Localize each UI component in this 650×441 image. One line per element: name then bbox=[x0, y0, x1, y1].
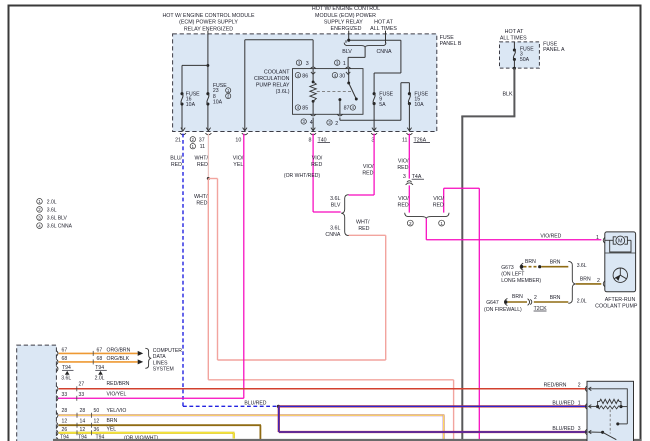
svg-text:HOT AT: HOT AT bbox=[374, 19, 393, 25]
pump fan symbol bbox=[613, 268, 627, 282]
svg-text:YEL/VIO: YEL/VIO bbox=[107, 408, 127, 414]
header: hot at all times (right) bbox=[500, 29, 527, 41]
ground G673 bbox=[501, 263, 541, 284]
relay mechanical dashed link bbox=[317, 91, 352, 93]
svg-text:ORG/BRN: ORG/BRN bbox=[107, 348, 131, 354]
svg-text:2.0L: 2.0L bbox=[95, 376, 105, 382]
svg-text:CNNA: CNNA bbox=[376, 49, 391, 55]
relay U-box bbox=[293, 69, 364, 115]
svg-text:CNNA: CNNA bbox=[325, 232, 340, 238]
pin 3 label bbox=[371, 137, 374, 143]
mechanical dashed link (switch) bbox=[609, 410, 611, 434]
svg-text:CIRCULATION: CIRCULATION bbox=[254, 76, 290, 82]
svg-text:33: 33 bbox=[79, 392, 85, 398]
svg-text:BRN: BRN bbox=[580, 277, 591, 283]
relay pin 1 connector arc + label bbox=[335, 60, 351, 83]
svg-text:VIO/: VIO/ bbox=[398, 196, 409, 202]
svg-text:BLU/RED: BLU/RED bbox=[552, 400, 574, 406]
ground G647 bbox=[484, 298, 522, 312]
svg-text:G673: G673 bbox=[501, 265, 514, 271]
wire BLU/RED solid to pin 1 bbox=[279, 400, 587, 406]
connector T94 labels (data lines) bbox=[61, 365, 107, 381]
feed tick into panel B at x=385.5 bbox=[385, 31, 387, 44]
wire VIO/RED from T4A to option brace (2) bbox=[398, 185, 410, 212]
thermo switch blade bbox=[589, 422, 627, 439]
svg-text:3.6L: 3.6L bbox=[330, 196, 340, 202]
pin 2 cup + arrow bbox=[585, 386, 591, 392]
legend engine variants bbox=[37, 199, 73, 230]
svg-text:VIO/: VIO/ bbox=[433, 196, 444, 202]
svg-text:LINES: LINES bbox=[153, 360, 168, 366]
svg-text:WHT/: WHT/ bbox=[194, 194, 208, 200]
svg-text:2.0L: 2.0L bbox=[47, 199, 57, 205]
computer data lines brace bbox=[145, 348, 182, 373]
pin 3 cup + arrow bbox=[585, 429, 591, 435]
svg-text:26: 26 bbox=[62, 427, 68, 433]
wire WHT/RED branch B (to CNNA brace arm) bbox=[208, 179, 385, 361]
svg-text:BRN: BRN bbox=[550, 295, 561, 301]
ground variant brace bbox=[568, 261, 586, 304]
pump pin 2 cup bbox=[597, 278, 605, 287]
wire BLK from fuse panel A bbox=[461, 68, 515, 441]
wire VIO/RED merged output to pump pin 1 bbox=[426, 219, 601, 240]
svg-text:67: 67 bbox=[62, 348, 68, 354]
svg-text:2: 2 bbox=[335, 121, 338, 127]
header: hot w/ ECM power supply relay energized (center) bbox=[312, 6, 380, 32]
svg-text:RED: RED bbox=[196, 201, 207, 207]
svg-text:10A: 10A bbox=[213, 100, 223, 106]
svg-text:VIO/: VIO/ bbox=[363, 164, 374, 170]
wire VIO/YEL (pin 33) labels bbox=[62, 392, 127, 398]
svg-text:ALL TIMES: ALL TIMES bbox=[500, 35, 527, 41]
svg-text:3.6L: 3.6L bbox=[61, 376, 71, 382]
svg-text:50A: 50A bbox=[520, 57, 530, 63]
pin 1 cup + arrow bbox=[585, 404, 591, 410]
wire BLU/RED dashed from pin 21 bbox=[170, 134, 277, 407]
svg-text:30: 30 bbox=[339, 73, 345, 79]
svg-text:VIO/: VIO/ bbox=[312, 156, 323, 162]
svg-text:12: 12 bbox=[94, 418, 100, 424]
svg-text:33: 33 bbox=[62, 392, 68, 398]
svg-text:PANEL A: PANEL A bbox=[543, 47, 565, 53]
in-line connector T2CK pin 2 bbox=[528, 295, 548, 312]
label BLU/RED near junction bbox=[244, 400, 266, 406]
svg-text:RED/BRN: RED/BRN bbox=[544, 382, 567, 388]
svg-text:2.0L: 2.0L bbox=[577, 299, 587, 305]
junction dot WHT/RED split bbox=[207, 177, 210, 180]
svg-text:28: 28 bbox=[62, 408, 68, 414]
wire VIO/RED from pin 11 T26A down to T4A bbox=[397, 134, 409, 179]
relay switch 30/87 bbox=[332, 73, 358, 115]
svg-text:BLU/RED: BLU/RED bbox=[552, 426, 574, 432]
wire VIO/RED option (1) from right bbox=[433, 188, 480, 441]
svg-text:3: 3 bbox=[403, 174, 406, 180]
svg-text:21: 21 bbox=[175, 137, 181, 143]
option merge brace above motor feed bbox=[405, 213, 449, 226]
fuse 9 5A bbox=[373, 91, 394, 130]
wire BRN merged to pump pin 2 bbox=[576, 277, 602, 284]
svg-text:LONG MEMBER): LONG MEMBER) bbox=[501, 278, 541, 284]
wire BRN from T2CK to brace bbox=[534, 295, 569, 302]
wire WHT/RED branch A (down-right-down) bbox=[194, 179, 454, 441]
wire ORG/BLK (data line 68) bbox=[59, 356, 144, 364]
svg-text:PANEL B: PANEL B bbox=[440, 41, 462, 47]
wire YEL/VIO (pin 28) bbox=[59, 408, 445, 441]
pin 11 T26A label bbox=[402, 137, 430, 143]
wire BRN from G647 (2.0L) bbox=[508, 294, 527, 302]
junction dot BLU/RED split bbox=[277, 405, 280, 408]
svg-text:RED: RED bbox=[398, 202, 409, 208]
wire: feed down to fuse 9 bbox=[374, 40, 401, 93]
svg-text:RED/BRN: RED/BRN bbox=[107, 381, 130, 387]
svg-text:VIO/: VIO/ bbox=[398, 159, 409, 165]
svg-text:BLU/: BLU/ bbox=[170, 156, 182, 162]
svg-text:50: 50 bbox=[94, 408, 100, 414]
wire BRN (pin 12) bbox=[59, 418, 261, 441]
svg-text:87: 87 bbox=[344, 106, 350, 112]
pin 21 label bbox=[175, 137, 181, 143]
fuse 3 50A bbox=[513, 42, 534, 68]
svg-text:12: 12 bbox=[62, 418, 68, 424]
svg-text:3.6L BLV: 3.6L BLV bbox=[47, 216, 68, 222]
relay pin 3 connector arc + label bbox=[296, 60, 316, 82]
fuse panel A label bbox=[543, 41, 565, 53]
resistor element (dual) bbox=[589, 399, 623, 409]
pump motor symbol M bbox=[605, 236, 631, 252]
after-run coolant pump label bbox=[595, 297, 638, 310]
svg-text:ORG/BLK: ORG/BLK bbox=[107, 356, 130, 362]
svg-text:RED: RED bbox=[171, 162, 182, 168]
wire RED/BRN (pin 27) bbox=[59, 381, 587, 389]
svg-text:2: 2 bbox=[534, 295, 537, 301]
svg-text:1: 1 bbox=[596, 235, 599, 241]
fuse 15 10A bbox=[408, 91, 429, 130]
header: hot w/ ECM power supply relay energized (left) bbox=[162, 13, 255, 32]
svg-text:28: 28 bbox=[80, 408, 86, 414]
svg-text:4: 4 bbox=[310, 120, 313, 126]
thermo switch / resistor box (bottom right) bbox=[587, 381, 634, 441]
internal wire pin2 to resistor right bbox=[589, 389, 627, 424]
svg-text:HOT W/ ENGINE CONTROL: HOT W/ ENGINE CONTROL bbox=[312, 6, 380, 12]
wire BLU/RED solid to pin 3 bbox=[279, 406, 587, 432]
svg-text:12: 12 bbox=[80, 427, 86, 433]
svg-text:RED: RED bbox=[311, 162, 322, 168]
svg-text:HOT AT: HOT AT bbox=[505, 29, 524, 35]
svg-text:VIO/: VIO/ bbox=[233, 156, 244, 162]
svg-text:37: 37 bbox=[199, 137, 205, 143]
svg-text:BRN: BRN bbox=[512, 294, 523, 300]
pump pin 1 cup bbox=[596, 235, 605, 243]
svg-text:3: 3 bbox=[306, 61, 309, 67]
svg-text:86: 86 bbox=[302, 73, 308, 79]
relay pin 2 exit arc + label + wire to fuse 15 bbox=[327, 83, 410, 127]
svg-text:BRN: BRN bbox=[107, 418, 118, 424]
relay pin 4 exit arc + label + wire to T40 bbox=[301, 114, 316, 130]
svg-text:MODULE (ECM) POWER: MODULE (ECM) POWER bbox=[315, 13, 376, 19]
header: hot at all times (center) bbox=[370, 19, 397, 32]
label RED/BRN near pin 2 bbox=[544, 382, 581, 388]
wire: BLV arm from junction dot bbox=[345, 40, 347, 43]
fuse panel B box bbox=[173, 34, 437, 132]
svg-text:HOT W/ ENGINE CONTROL MODULE: HOT W/ ENGINE CONTROL MODULE bbox=[162, 13, 255, 19]
svg-text:BRN: BRN bbox=[525, 259, 536, 265]
svg-text:10A: 10A bbox=[414, 102, 424, 108]
svg-text:SYSTEM: SYSTEM bbox=[153, 367, 174, 373]
svg-text:3.6L CNNA: 3.6L CNNA bbox=[47, 224, 73, 230]
svg-text:YEL: YEL bbox=[107, 427, 117, 433]
fuse panel B label bbox=[440, 35, 462, 47]
svg-text:3.6L: 3.6L bbox=[47, 207, 57, 213]
wire: pin10 vertical and top horizontal to relay pin3 bbox=[245, 40, 313, 131]
svg-text:2: 2 bbox=[578, 382, 581, 388]
svg-text:11: 11 bbox=[200, 144, 206, 150]
svg-text:WHT/: WHT/ bbox=[194, 156, 208, 162]
svg-text:14: 14 bbox=[80, 418, 86, 424]
wire: merge output to relay pin 1 bbox=[348, 47, 365, 67]
svg-text:RED: RED bbox=[358, 226, 369, 232]
svg-text:85: 85 bbox=[302, 106, 308, 112]
ECM pin cups right edge bbox=[56, 351, 58, 441]
junction dot BLV/CNNA feed bbox=[347, 39, 401, 42]
svg-text:BLV: BLV bbox=[342, 49, 352, 55]
wire VIO/RED from pin 8 T40 to variant brace bbox=[284, 134, 341, 212]
svg-text:COOLANT: COOLANT bbox=[264, 70, 290, 76]
svg-text:36: 36 bbox=[94, 427, 100, 433]
BLV/CNNA merge brace bbox=[342, 43, 392, 55]
svg-text:1: 1 bbox=[578, 400, 581, 406]
svg-text:PUMP RELAY: PUMP RELAY bbox=[256, 83, 290, 89]
svg-text:67: 67 bbox=[97, 348, 103, 354]
relay coil pins 86/85 bbox=[295, 73, 316, 115]
fuse 23 10A bbox=[206, 83, 230, 106]
wire ORG/BRN (data line 67) bbox=[59, 348, 144, 356]
svg-text:ENERGIZED: ENERGIZED bbox=[331, 26, 362, 32]
svg-text:RELAY ENERGIZED: RELAY ENERGIZED bbox=[184, 26, 233, 32]
svg-text:3.6L: 3.6L bbox=[330, 226, 340, 232]
coolant circulation pump relay label bbox=[254, 70, 290, 96]
fuse 16 10A bbox=[180, 91, 200, 108]
svg-text:VIO/YEL: VIO/YEL bbox=[107, 392, 127, 398]
in-line connector ticks on ECM wires bbox=[77, 351, 93, 435]
svg-text:ALL TIMES: ALL TIMES bbox=[370, 26, 397, 32]
svg-text:AFTER-RUN: AFTER-RUN bbox=[605, 297, 636, 303]
wire YEL (pin 26) bbox=[59, 427, 235, 439]
wire: fuse16/23 feed vertical x=208 bbox=[206, 34, 209, 131]
svg-text:10: 10 bbox=[235, 137, 241, 143]
panel B bottom pin cups bbox=[180, 133, 412, 135]
svg-text:BLU/RED: BLU/RED bbox=[244, 400, 266, 406]
svg-text:(ON FIREWALL): (ON FIREWALL) bbox=[484, 307, 522, 313]
wire VIO/RED from pin 3 (fuse 9) to brace BLV arm bbox=[349, 134, 375, 195]
pin 10 label bbox=[235, 137, 241, 143]
svg-text:(ON LEFT: (ON LEFT bbox=[501, 271, 524, 277]
svg-text:10A: 10A bbox=[186, 102, 196, 108]
svg-text:27: 27 bbox=[79, 381, 85, 387]
wire BRN from G673 (3.6L) bbox=[524, 259, 569, 268]
wire VIO/YEL from pin 10 bbox=[58, 134, 244, 399]
svg-text:8: 8 bbox=[309, 137, 312, 143]
svg-text:M: M bbox=[618, 239, 623, 245]
svg-text:DATA: DATA bbox=[153, 354, 166, 360]
svg-text:SUPPLY RELAY: SUPPLY RELAY bbox=[324, 19, 363, 25]
svg-text:3.6L: 3.6L bbox=[577, 263, 587, 269]
pin 8 T40 label bbox=[309, 137, 330, 143]
pin 37/11 labels bbox=[190, 137, 205, 151]
connector T94 labels (bottom row) bbox=[60, 434, 159, 441]
svg-text:RED: RED bbox=[362, 171, 373, 177]
panel B bottom pin arrows bbox=[181, 128, 412, 131]
in-line connector T4A pin 3 bbox=[403, 174, 424, 185]
svg-text:68: 68 bbox=[97, 356, 103, 362]
svg-text:(OR WHT/RED): (OR WHT/RED) bbox=[284, 173, 321, 179]
svg-text:WHT/: WHT/ bbox=[356, 220, 370, 226]
feed tick into panel B at x=348.7 bbox=[348, 31, 350, 41]
svg-text:RED: RED bbox=[433, 202, 444, 208]
svg-text:VIO/RED: VIO/RED bbox=[540, 234, 561, 240]
engine variant brace at T40 wire bbox=[325, 195, 348, 238]
after-run coolant pump box bbox=[605, 232, 636, 292]
svg-text:(ECM) POWER SUPPLY: (ECM) POWER SUPPLY bbox=[179, 20, 238, 26]
junction dot at panel A exit bbox=[513, 67, 516, 70]
feed tick into panel B at x=208 bbox=[207, 31, 209, 35]
svg-text:3: 3 bbox=[578, 426, 581, 432]
bottom gray separator band bbox=[53, 439, 641, 441]
svg-text:(3.6L): (3.6L) bbox=[276, 89, 290, 95]
svg-text:RED: RED bbox=[197, 162, 208, 168]
svg-text:YEL: YEL bbox=[233, 162, 243, 168]
svg-text:COOLANT PUMP: COOLANT PUMP bbox=[595, 304, 638, 310]
svg-text:5A: 5A bbox=[379, 102, 386, 108]
svg-text:1: 1 bbox=[343, 61, 346, 67]
svg-text:RED: RED bbox=[397, 165, 408, 171]
svg-text:COMPUTER: COMPUTER bbox=[153, 348, 182, 354]
svg-text:BLV: BLV bbox=[331, 203, 341, 209]
svg-text:BRN: BRN bbox=[550, 260, 561, 266]
ECM module box (bottom left) bbox=[17, 345, 57, 441]
svg-text:68: 68 bbox=[62, 356, 68, 362]
wire: branch to fuse16 bbox=[182, 65, 208, 130]
svg-text:G647: G647 bbox=[486, 300, 499, 306]
svg-text:BLK: BLK bbox=[503, 92, 513, 98]
svg-text:11: 11 bbox=[402, 137, 408, 143]
wire WHT/RED from pin 37 upper segment bbox=[194, 134, 208, 179]
fuse panel A box bbox=[500, 42, 540, 68]
